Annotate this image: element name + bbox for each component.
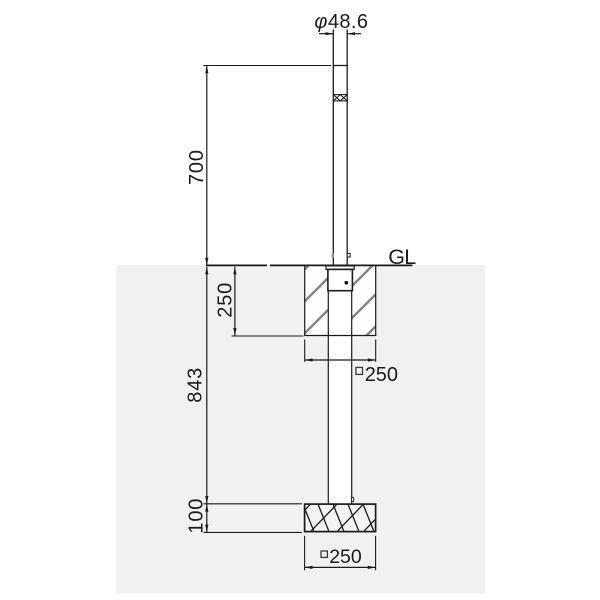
dimension phi48.6 lines [319, 33, 361, 35]
dim 100 line [206, 504, 208, 532]
dim 250 embed line [234, 267, 236, 336]
lock pin bump left (faint) [332, 254, 333, 257]
base plate steel hatch [284, 504, 390, 531]
sleeve pipe white column [328, 266, 351, 504]
ground fill (soil below GL) [117, 265, 486, 593]
GL line [206, 264, 412, 266]
reflective band [333, 95, 348, 101]
dim 100 extension lines [203, 504, 301, 533]
foundation F1 outline [304, 266, 376, 336]
svg-text:843: 843 [185, 367, 207, 403]
foundation F1 hatch lines [239, 266, 437, 336]
bottom sq250 extension lines [305, 536, 376, 571]
dim 700 line [206, 66, 208, 266]
svg-text:250: 250 [365, 364, 398, 386]
underground sleeve pipe edges [328, 291, 351, 504]
base plate fill [305, 504, 376, 531]
svg-text:φ48.6: φ48.6 [314, 11, 368, 33]
mid sq250 extension lines [305, 340, 376, 362]
mid sq250 dim line [305, 359, 376, 361]
mid sq250 text [356, 367, 363, 374]
svg-text:250: 250 [329, 546, 362, 568]
svg-text:100: 100 [186, 498, 208, 534]
phi48.6 arrows [326, 32, 334, 35]
svg-text:700: 700 [186, 149, 208, 185]
base plate outline [305, 504, 376, 531]
sleeve flange at GL [326, 266, 354, 270]
dim 700 extension line (pipe top) [203, 65, 331, 67]
foundation bottom extension line [232, 335, 304, 337]
foundation F1 concrete block fill [305, 265, 376, 335]
svg-text:250: 250 [215, 282, 237, 318]
bottom sq250 text [321, 551, 327, 557]
sleeve socket body [328, 269, 353, 290]
bottom sq250 dim line [305, 566, 376, 568]
svg-text:GL: GL [388, 245, 416, 269]
dim 843 line [206, 267, 208, 504]
pipe top cap [333, 65, 347, 67]
drain hole at pipe bottom [351, 497, 353, 501]
bollard pipe P1 edges [333, 30, 347, 267]
lock bolt dot [345, 281, 349, 285]
lock pin bump right [347, 253, 350, 257]
